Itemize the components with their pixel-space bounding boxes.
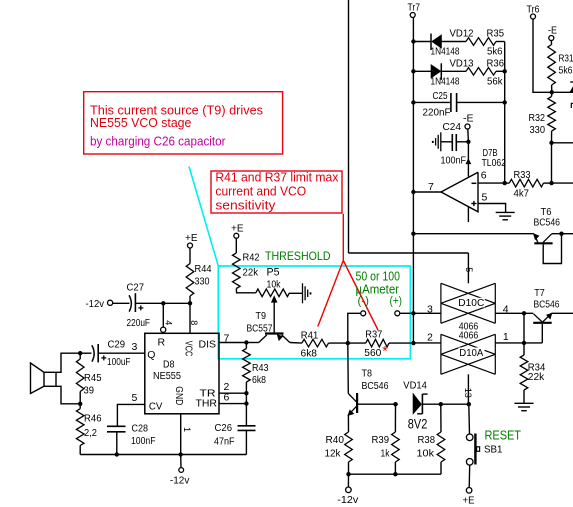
opamp output wire pin7 <box>413 191 441 193</box>
opamp ground <box>496 211 515 213</box>
svg-text:1N4148: 1N4148 <box>431 46 460 58</box>
wire R41 right <box>329 342 348 344</box>
capacitor C27 right wire <box>136 302 190 304</box>
wire T8 base right <box>358 403 398 405</box>
svg-text:5k6: 5k6 <box>559 65 573 77</box>
wire R33 node right <box>552 182 573 184</box>
wire T6 row left <box>413 233 534 235</box>
capacitor C26 plate 2 <box>238 429 256 431</box>
node T6 collector <box>559 232 563 236</box>
svg-text:(-): (-) <box>358 293 370 307</box>
svg-text:4: 4 <box>163 320 173 325</box>
svg-text:1: 1 <box>182 427 192 432</box>
svg-text:*: * <box>382 342 388 358</box>
wire VD12 to R35 <box>442 41 467 43</box>
svg-text:VD14: VD14 <box>403 380 427 392</box>
resistor R37 <box>366 339 389 347</box>
capacitor C24 left wire <box>441 141 452 143</box>
cyan highlight box <box>218 266 410 359</box>
wire D10A pin13 stub <box>467 374 469 404</box>
diode VD12 body <box>432 35 442 48</box>
svg-text:R39: R39 <box>372 434 390 446</box>
wire R35 right <box>496 41 505 43</box>
node R40 bottom <box>346 472 350 476</box>
wire R39 bottom <box>394 462 396 474</box>
svg-text:330: 330 <box>195 275 210 287</box>
opamp bottom stub <box>467 207 469 222</box>
resistor R42 <box>233 253 241 289</box>
svg-text:CV: CV <box>149 400 163 412</box>
svg-text:R41 and R37 limit max: R41 and R37 limit max <box>215 170 338 185</box>
label + (C27) <box>138 307 143 309</box>
capacitor C25 right wire <box>457 101 505 103</box>
opamp plus sign <box>471 203 476 205</box>
node R41/R37/T8 <box>346 341 350 345</box>
svg-text:56k: 56k <box>487 75 503 87</box>
transistor T6 emitter <box>534 234 538 242</box>
svg-text:+E: +E <box>463 495 475 507</box>
capacitor C29 plate <box>97 344 99 362</box>
wire to NE555 pin4 <box>162 303 164 327</box>
wire +E to R44 <box>189 248 191 264</box>
wire SB1 bottom <box>468 465 471 487</box>
svg-text:R46: R46 <box>84 413 102 425</box>
diode VD14 zener hook bottom <box>417 413 422 415</box>
svg-text:R31: R31 <box>559 53 573 65</box>
svg-text:6: 6 <box>481 169 487 181</box>
wire plus-terminal to bus <box>400 312 414 314</box>
supply -E terminal (C24) <box>465 124 470 129</box>
resistor R40 <box>345 432 353 462</box>
wire +E to R42 <box>235 238 237 253</box>
svg-text:DIS: DIS <box>199 339 217 351</box>
svg-text:BC546: BC546 <box>534 299 560 311</box>
wire R39 top lead <box>394 404 396 432</box>
transistor T6 base-collector loop <box>543 234 561 264</box>
terminal Tr6 <box>531 14 536 19</box>
node pin4 top <box>161 301 165 305</box>
svg-text:6k8: 6k8 <box>252 374 266 386</box>
analog switch D10A <box>440 334 442 374</box>
wire control bus vertical <box>348 0 350 253</box>
wire R33 left <box>505 182 510 184</box>
capacitor C25 plate 1 <box>450 93 452 112</box>
wire C29 left <box>80 352 91 354</box>
wire D10A pin2 <box>413 342 441 344</box>
wire R43 top <box>245 343 247 349</box>
wire R37 left <box>348 342 366 344</box>
node THR/C26 <box>244 401 248 405</box>
diode VD13 cathode bar <box>440 63 442 80</box>
pushbutton SB1 contact bottom <box>466 459 473 466</box>
resistor R45 <box>76 359 84 392</box>
capacitor C28 plate 2 <box>107 431 126 433</box>
capacitor C26 plate 1 <box>238 425 256 427</box>
svg-text:5: 5 <box>132 392 138 404</box>
wire T7 base down <box>541 324 543 343</box>
wire R42 to P5 <box>236 289 256 293</box>
node opamp pin6 <box>503 181 507 185</box>
svg-text:T7: T7 <box>534 287 545 299</box>
svg-text:8: 8 <box>189 320 199 325</box>
wire -12v stub (555) <box>180 455 182 468</box>
wire R36 right <box>496 70 505 72</box>
analog switch D10C <box>440 283 442 323</box>
wire D10C pin4 <box>495 312 533 314</box>
node C24 right <box>466 140 470 144</box>
resistor R35 <box>466 38 496 46</box>
capacitor C24 plate 1 <box>451 134 453 151</box>
transistor T7 emitter arrow <box>547 313 552 319</box>
svg-text:R42: R42 <box>243 251 260 263</box>
diode VD14 zener hook top <box>422 393 427 395</box>
transistor T6 emitter arrow <box>534 234 539 240</box>
wire P5 wiper to T9 base <box>273 300 275 332</box>
svg-text:sensitivity: sensitivity <box>215 198 276 213</box>
svg-text:3: 3 <box>132 341 138 353</box>
wire T7 emitter right <box>551 312 573 314</box>
wire D10C pin3 <box>413 312 441 314</box>
svg-text:R44: R44 <box>195 263 212 275</box>
svg-text:1: 1 <box>503 331 509 343</box>
svg-text:8V2: 8V2 <box>408 416 428 431</box>
cyan callout leader line <box>189 167 218 267</box>
svg-text:39: 39 <box>84 384 95 396</box>
node R33 right <box>549 181 553 185</box>
svg-text:THR: THR <box>196 398 218 410</box>
wire bottom rail <box>80 454 246 456</box>
capacitor C28 plate 1 <box>107 425 126 427</box>
supply -E terminal (R31) <box>549 36 554 41</box>
terminal (+) ring <box>395 311 400 316</box>
svg-text:-12v: -12v <box>170 474 190 486</box>
opamp pin6 wire <box>478 182 505 184</box>
wire minus-terminal riser <box>348 313 361 343</box>
wire bottom rail 2 <box>349 473 442 475</box>
resistor R33 <box>509 179 543 187</box>
red pointer stem <box>342 214 344 261</box>
svg-text:5k6: 5k6 <box>487 46 503 58</box>
wire R43-TR-THR vertical <box>245 393 247 403</box>
wire C28 bottom <box>116 432 118 455</box>
node VD13 left <box>411 69 415 73</box>
wire R34 bottom <box>523 390 525 403</box>
node R38 top <box>439 402 443 406</box>
wire R45 top <box>79 353 81 359</box>
svg-text:330: 330 <box>530 124 546 136</box>
svg-text:NE555 VCO stage: NE555 VCO stage <box>90 115 191 130</box>
transistor T7 collector <box>534 314 543 322</box>
diode VD14 body <box>413 393 421 414</box>
svg-text:-E: -E <box>548 25 557 37</box>
terminal +E (SB1) <box>466 488 472 494</box>
clipped wire stub top right <box>570 81 573 83</box>
svg-text:VD12: VD12 <box>450 28 474 40</box>
opamp minus sign <box>472 182 477 184</box>
wire speaker top <box>56 353 80 372</box>
terminal (-) ring <box>361 311 366 316</box>
wire NE555 pin1 GND <box>180 414 182 455</box>
transistor T8 emitter arrow <box>348 410 354 416</box>
resistor R36 <box>466 68 496 76</box>
node C25 right <box>503 100 507 104</box>
svg-text:NE555: NE555 <box>153 370 181 382</box>
svg-text:6k8: 6k8 <box>301 348 318 360</box>
wire NE555 pin6 THR <box>219 403 246 405</box>
wire -12v to C27 <box>113 302 130 304</box>
svg-text:SB1: SB1 <box>484 443 503 455</box>
svg-text:R43: R43 <box>252 362 269 374</box>
wire VD14 cathode right <box>422 403 468 405</box>
wire T6 row right <box>562 233 573 235</box>
red pointer to R37 <box>343 261 378 331</box>
wire R32-R33 vertical <box>551 143 553 183</box>
wire R38 bottom <box>440 462 442 474</box>
svg-text:-12v: -12v <box>86 298 105 310</box>
svg-text:100nF: 100nF <box>131 435 156 447</box>
wire R31 bottom <box>551 85 553 92</box>
svg-text:2: 2 <box>427 332 433 344</box>
wire T9 collector to R41 <box>290 342 302 345</box>
wire R46 bottom <box>79 446 81 455</box>
svg-text:220nF: 220nF <box>423 107 451 119</box>
capacitor C27 plate <box>134 293 136 312</box>
transistor T9 base bar <box>265 332 284 334</box>
wire to NE555 pin8 <box>189 303 191 333</box>
transistor T6 collector <box>543 234 551 242</box>
svg-text:13: 13 <box>463 388 473 398</box>
svg-text:R36: R36 <box>487 57 505 69</box>
node TR/R43 <box>244 391 248 395</box>
svg-text:(+): (+) <box>390 293 403 307</box>
capacitor C25 plate 2 <box>456 93 458 112</box>
node R36 right <box>503 69 507 73</box>
terminal -12v (555) <box>179 468 184 473</box>
node C25 left <box>411 100 415 104</box>
speaker driver box <box>44 372 56 386</box>
wire C24 node to opamp <box>467 142 469 177</box>
callout box: current source note <box>84 92 283 154</box>
supply +E terminal (R44) <box>188 243 193 248</box>
svg-text:RESET: RESET <box>485 428 522 442</box>
wire NE555 pin5 CV <box>117 404 144 425</box>
pushbutton SB1 actuator bar <box>474 434 476 465</box>
wire D10A pin1 <box>495 342 542 344</box>
svg-text:P5: P5 <box>267 266 280 278</box>
svg-text:C26: C26 <box>215 422 233 434</box>
svg-text:5: 5 <box>464 267 474 272</box>
svg-text:Q: Q <box>147 349 155 361</box>
transistor T8 collector diag <box>348 394 356 403</box>
terminal -12v (R40) <box>346 487 352 493</box>
wire NE555 pin7 DIS <box>219 342 246 344</box>
svg-text:R40: R40 <box>326 434 345 446</box>
capacitor C25 left wire <box>413 101 450 103</box>
node R37 right <box>411 341 415 345</box>
diode VD12 cathode bar <box>430 34 432 51</box>
wire T7 collector-base link <box>523 313 525 343</box>
node T7 collector <box>522 311 526 315</box>
node R39 top <box>393 402 397 406</box>
svg-text:VD13: VD13 <box>450 57 474 69</box>
pushbutton SB1 actuator nub <box>477 447 480 452</box>
svg-text:R: R <box>158 336 166 348</box>
svg-text:THRESHOLD: THRESHOLD <box>265 249 331 263</box>
svg-text:R38: R38 <box>418 434 436 446</box>
resistor R46 <box>76 409 84 446</box>
clipped letter fragment <box>571 103 573 108</box>
node Tr6/R31 <box>550 90 554 94</box>
wire speaker bottom <box>56 386 80 404</box>
svg-text:VCC: VCC <box>182 341 193 357</box>
wire T9 emitter <box>246 342 258 344</box>
svg-text:+E: +E <box>185 232 198 244</box>
svg-text:220uF: 220uF <box>127 317 151 329</box>
transistor T9 right lead <box>282 335 290 343</box>
svg-text:R41: R41 <box>301 329 319 341</box>
resistor R41 <box>302 339 329 347</box>
svg-text:R35: R35 <box>487 28 505 40</box>
wire -E to R31 <box>550 41 552 45</box>
capacitor C27 curved plate <box>129 295 131 311</box>
wire R45 bottom <box>79 392 81 404</box>
label D10C <box>458 298 485 308</box>
wire C26 bottom <box>245 430 247 454</box>
transistor T7 base bar <box>533 322 552 324</box>
svg-text:R32: R32 <box>529 112 546 124</box>
wire NE555 pin2 TR <box>219 392 246 394</box>
wire R44 bottom <box>189 296 191 303</box>
svg-text:C27: C27 <box>127 282 145 294</box>
svg-text:22k: 22k <box>243 266 259 278</box>
wire D10C pin5 stub <box>467 253 469 283</box>
wire T6 collector to node <box>552 233 562 235</box>
svg-text:D10C: D10C <box>458 297 484 309</box>
terminal Tr7 <box>410 13 415 18</box>
resistor R38 <box>437 432 445 462</box>
wire SB1 top <box>468 404 471 434</box>
transistor T9 arrow (PNP) <box>277 335 282 341</box>
svg-text:+E: +E <box>231 222 244 234</box>
svg-text:4k7: 4k7 <box>514 187 530 199</box>
diode VD13 body <box>431 65 441 78</box>
svg-text:6: 6 <box>224 392 230 404</box>
node C29/R45 <box>78 351 82 355</box>
terminal -12v (C27) <box>108 300 113 305</box>
capacitor C24 right wire <box>457 141 469 143</box>
svg-text:22k: 22k <box>528 371 545 383</box>
R34 ground <box>515 402 534 404</box>
svg-text:-E: -E <box>463 113 474 125</box>
svg-text:5: 5 <box>482 191 488 203</box>
wire T8 emitter down <box>347 415 349 432</box>
node D10C pin3 <box>411 311 415 315</box>
svg-text:TL062: TL062 <box>482 157 507 169</box>
resistor R39 <box>392 432 400 462</box>
transistor T8 base bar <box>356 393 358 413</box>
svg-text:BC546: BC546 <box>534 216 561 228</box>
svg-text:T8: T8 <box>362 367 373 379</box>
diode VD14 zener bar <box>421 394 423 414</box>
svg-text:D10A: D10A <box>459 347 483 359</box>
wire -12v stub (R40) <box>347 474 349 487</box>
potentiometer P5 wiper arrow <box>271 296 277 302</box>
callout box: R41/R37 note <box>211 171 342 213</box>
wire R32 node right <box>552 142 573 144</box>
wire Tr7 vertical bus <box>412 18 414 344</box>
wire R37 right <box>389 342 413 344</box>
node C28 bottom <box>115 452 119 456</box>
svg-text:Tr7: Tr7 <box>408 2 421 14</box>
svg-text:4066: 4066 <box>459 330 479 342</box>
svg-text:1N4148: 1N4148 <box>431 75 460 87</box>
wire VD13 anode <box>413 70 431 72</box>
wire R46 top <box>79 404 81 409</box>
wire Tr6 down <box>533 19 573 92</box>
P5 ground (rotated) <box>302 283 304 303</box>
label D10A <box>459 348 485 358</box>
svg-text:R37: R37 <box>365 329 382 341</box>
wire R40 bottom <box>348 462 350 474</box>
wire R43 bottom <box>245 382 247 393</box>
node R45/R46 <box>78 402 82 406</box>
transistor T6 base bar <box>534 242 552 244</box>
wire control bus horizontal <box>349 252 469 254</box>
opamp V+ arrow <box>466 159 471 164</box>
svg-text:D8: D8 <box>163 358 175 370</box>
svg-text:12k: 12k <box>325 447 342 459</box>
svg-text:7: 7 <box>428 181 434 193</box>
pushbutton SB1 contact top <box>466 434 473 441</box>
wire -E to C24 node <box>467 129 470 142</box>
wire right feedback bus <box>504 42 506 184</box>
svg-text:2,2: 2,2 <box>84 427 97 439</box>
NE555 reset bubble <box>161 327 166 332</box>
capacitor C24 ground (rotated) <box>440 132 442 151</box>
resistor R34 <box>520 355 528 390</box>
node DIS/T9/R43 <box>244 340 248 344</box>
wire R33 right <box>544 182 552 184</box>
transistor T7 emitter <box>543 314 552 322</box>
svg-text:T9: T9 <box>256 310 267 322</box>
svg-text:C28: C28 <box>132 423 149 435</box>
op-amp D7B triangle <box>441 172 478 212</box>
capacitor C29 curved plate <box>92 345 94 361</box>
wire VD12 anode <box>413 41 431 43</box>
node pin13/SB1 <box>467 402 471 406</box>
svg-text:47nF: 47nF <box>214 436 235 448</box>
node R32 bottom <box>549 141 553 145</box>
resistor R32 <box>548 97 556 132</box>
wire T8 collector riser <box>347 343 350 393</box>
svg-text:by charging C26 capacitor: by charging C26 capacitor <box>90 134 226 149</box>
wire C26 top <box>245 404 247 426</box>
supply +E terminal (R42) <box>234 233 239 238</box>
capacitor C24 plate 2 <box>455 134 457 151</box>
svg-text:7: 7 <box>224 333 230 345</box>
opamp pin5 wire <box>478 204 506 213</box>
transistor T9 left lead <box>259 335 267 343</box>
svg-text:current and VCO: current and VCO <box>215 184 306 199</box>
svg-text:R45: R45 <box>84 372 102 384</box>
wire R34 top <box>523 343 525 355</box>
speaker cone <box>31 363 45 394</box>
svg-text:10k: 10k <box>417 447 435 459</box>
svg-text:100uF: 100uF <box>107 356 131 368</box>
node GND pin bottom <box>179 452 183 456</box>
svg-text:3: 3 <box>427 303 433 315</box>
resistor R31 <box>548 45 556 86</box>
